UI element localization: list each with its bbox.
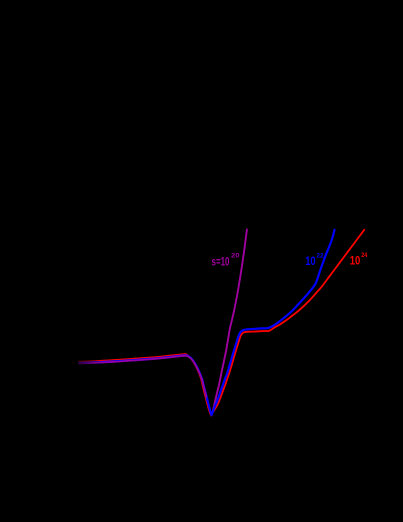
svg-text:10: 10 bbox=[350, 256, 361, 268]
curve 10^22 (blue) bbox=[79, 230, 335, 415]
curve 10^24 (red) bbox=[79, 230, 364, 414]
svg-text:10: 10 bbox=[305, 256, 315, 268]
svg-text:22: 22 bbox=[316, 253, 324, 260]
label 10^24 (red) bbox=[350, 252, 368, 268]
label s=10^20 (magenta) bbox=[212, 253, 240, 269]
svg-text:s=10: s=10 bbox=[212, 257, 230, 269]
fade of overlapping curves at their left ends bbox=[76, 352, 102, 370]
label 10^22 (blue) bbox=[305, 253, 324, 269]
svg-text:24: 24 bbox=[361, 252, 367, 259]
curve s=10^20 (magenta) bbox=[79, 230, 247, 416]
magenta overlap of left segment bbox=[79, 356, 207, 397]
svg-text:20: 20 bbox=[231, 253, 240, 260]
